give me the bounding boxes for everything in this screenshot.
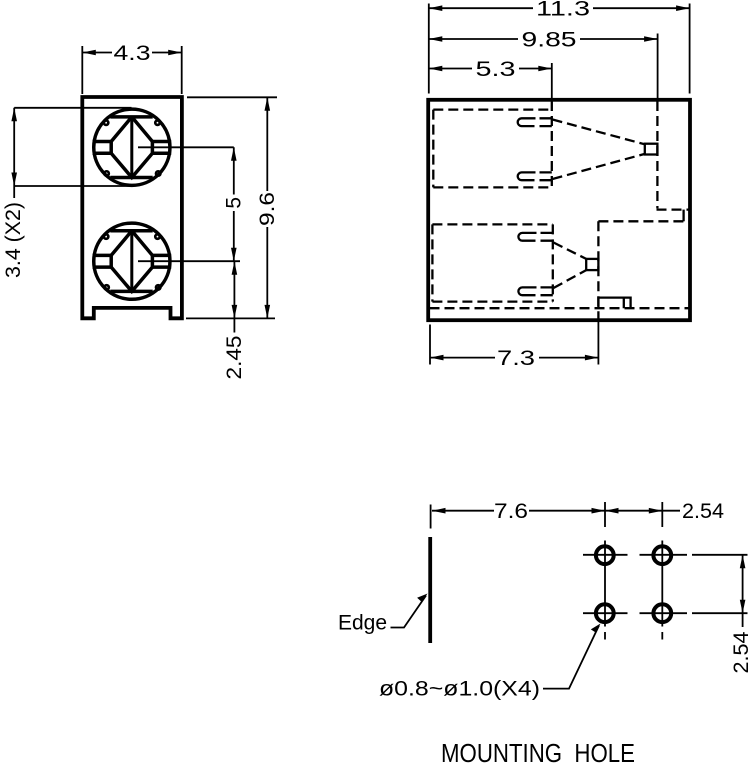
- pin 1: [518, 118, 536, 126]
- dimension 5.3 extension line: [551, 63, 553, 98]
- LED lens A left tab: [93, 142, 112, 154]
- hidden peg divider right: [682, 210, 684, 222]
- hole centerline column 1: [604, 502, 606, 640]
- svg-text:7.3: 7.3: [497, 347, 535, 370]
- hole diameter leader line: [543, 626, 599, 689]
- svg-text:5.3: 5.3: [476, 58, 516, 81]
- hidden vertical step edge: [597, 221, 599, 320]
- dimension 4.3 extension lines: [82, 46, 181, 94]
- dimension 2.45 line and arrows: [233, 261, 235, 332]
- svg-text:ø0.8~ø1.0(X4): ø0.8~ø1.0(X4): [379, 678, 540, 701]
- pcb edge line: [428, 537, 432, 643]
- LED lens B diamond facets: [111, 231, 152, 292]
- mounting hole 4: [653, 604, 671, 622]
- LED lens B center leader line: [138, 260, 240, 262]
- LED lens B circle: [94, 223, 170, 299]
- hidden bent lead A lower: [553, 154, 645, 179]
- svg-text:2.54: 2.54: [682, 500, 724, 523]
- LED lens B right tab: [152, 255, 171, 267]
- svg-text:4.3: 4.3: [114, 42, 151, 65]
- dimension 11.3 line and arrows: [429, 7, 690, 9]
- LED lens A inner octagon chords: [110, 117, 152, 178]
- hole centerline column 2: [661, 502, 663, 640]
- LED lens A circle: [94, 109, 170, 185]
- dimension 9.6 line and arrows: [266, 97, 268, 318]
- mounting hole 2: [653, 546, 671, 564]
- dimension 4.3 line and arrows: [82, 52, 112, 54]
- Edge leader arrowhead: [417, 594, 428, 602]
- dimension 5 line and arrows: [233, 147, 235, 261]
- hidden bottom surface line: [430, 307, 690, 309]
- pin 3: [518, 233, 536, 241]
- mounting hole 1: [596, 546, 614, 564]
- pin 4: [518, 287, 536, 295]
- svg-text:3.4 (X2): 3.4 (X2): [2, 202, 25, 278]
- LED lens A center leader line: [138, 146, 234, 148]
- dimension 7.6 line and arrows: [432, 510, 605, 512]
- hidden bent lead A upper: [553, 120, 645, 145]
- side view body outline: [428, 100, 690, 320]
- svg-text:11.3: 11.3: [536, 0, 590, 21]
- right extension line bottom: [186, 317, 275, 319]
- hidden bent lead B lower: [554, 270, 587, 288]
- hole centerline row 2: [583, 612, 748, 614]
- hidden outline LED B cavity: [432, 224, 552, 301]
- dimension 2.54 vertical line and arrows: [742, 555, 744, 627]
- svg-text:9.85: 9.85: [522, 29, 577, 52]
- svg-text:Edge: Edge: [338, 612, 387, 635]
- hidden vertical edge at 9.85: [656, 101, 658, 208]
- LED lens B center vertical line: [130, 231, 133, 292]
- lead exit block B: [586, 259, 598, 270]
- svg-text:7.6: 7.6: [494, 500, 528, 523]
- hidden bottom mounting peg: [598, 298, 630, 309]
- dimension 5.3 line and arrows: [429, 68, 552, 70]
- dimension 3.4 extension lines (tangent): [14, 108, 131, 186]
- right extension line top: [187, 96, 277, 98]
- svg-text:MOUNTING HOLE: MOUNTING HOLE: [441, 738, 635, 766]
- hidden bent lead B upper: [554, 243, 587, 259]
- LED lens A center vertical line: [130, 117, 133, 178]
- svg-text:9.6: 9.6: [256, 192, 279, 226]
- hidden ledge line right upper: [657, 208, 690, 210]
- svg-text:2.54: 2.54: [730, 631, 752, 673]
- LED lens B left tab: [93, 255, 112, 267]
- dimension 9.85 extension line: [657, 34, 659, 99]
- svg-text:5: 5: [223, 197, 246, 209]
- dimension 7.3 extension lines: [430, 322, 598, 365]
- dimension 11.3 extension lines: [429, 4, 690, 94]
- Edge leader line: [391, 596, 427, 628]
- pin 2: [518, 172, 536, 180]
- lead exit block A: [645, 144, 658, 155]
- dimension 7.3 line and arrows: [430, 357, 598, 359]
- hidden step line right: [598, 220, 689, 222]
- hidden outline LED A cavity: [433, 101, 552, 187]
- edge tick for 7.6: [430, 505, 432, 529]
- LED lens A corner nubs: [104, 120, 161, 175]
- LED lens A diamond facets: [111, 117, 152, 178]
- LED lens B corner nubs: [104, 234, 161, 289]
- svg-text:2.45: 2.45: [223, 336, 246, 380]
- LED lens B inner octagon chords: [110, 231, 152, 292]
- dimension 9.85 line and arrows: [429, 38, 658, 40]
- mounting hole 3: [596, 604, 614, 622]
- dimension 2.54 horizontal line and arrows: [605, 510, 680, 512]
- front view body outline: [82, 97, 182, 318]
- hole centerline row 1: [583, 554, 748, 556]
- LED lens A right tab: [152, 142, 171, 154]
- hole diameter leader arrowhead: [591, 624, 601, 633]
- dimension 3.4 line and arrows: [13, 108, 15, 198]
